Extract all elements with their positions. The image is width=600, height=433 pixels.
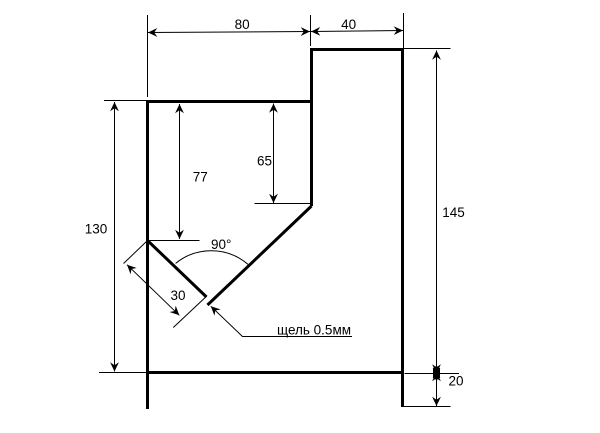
dimension line 77 bbox=[179, 104, 181, 239]
extension line bottom-left for dim 130 bbox=[99, 372, 146, 374]
part outline: top-right horizontal edge bbox=[310, 48, 404, 51]
extension line bottom-right upper for dim 20 bbox=[405, 373, 460, 375]
dimension line 145 bbox=[436, 51, 438, 374]
dimension line 40 bbox=[311, 31, 403, 32]
notch left diagonal bbox=[148, 241, 207, 298]
svg-text:65: 65 bbox=[257, 154, 272, 169]
part outline: step vertical edge bbox=[310, 48, 313, 206]
overlapping arrowheads of dims 145 and 20 bbox=[433, 366, 441, 380]
svg-text:щель 0.5мм: щель 0.5мм bbox=[277, 323, 351, 338]
notch right diagonal bbox=[208, 206, 312, 305]
dimension line 130 bbox=[114, 102, 116, 372]
svg-text:130: 130 bbox=[85, 222, 108, 237]
notch vertex horizontal reference line bbox=[148, 240, 200, 242]
angle arc 90 degrees bbox=[176, 251, 248, 265]
part outline: bottom horizontal edge bbox=[146, 371, 404, 374]
extension line bottom-right lower for dim 20 bbox=[402, 406, 451, 408]
svg-text:145: 145 bbox=[442, 205, 465, 220]
dimension line 20 bbox=[436, 372, 438, 406]
svg-text:80: 80 bbox=[235, 17, 250, 32]
svg-text:77: 77 bbox=[193, 170, 208, 185]
dimension line 65 bbox=[273, 104, 275, 204]
svg-text:40: 40 bbox=[341, 17, 356, 32]
extension line for dim 65 bottom bbox=[255, 203, 312, 205]
dimension line 80 bbox=[148, 32, 310, 33]
extension line middle for dims 80/40 bbox=[310, 15, 312, 46]
extension line right for dim 40 bbox=[403, 13, 405, 48]
dimension line 30 bbox=[127, 265, 179, 316]
svg-text:20: 20 bbox=[449, 374, 464, 389]
part outline: top-left horizontal edge bbox=[146, 100, 313, 103]
extension line top-left for dim 130 bbox=[104, 100, 146, 102]
extension line for dim 30 at vertex bbox=[124, 241, 148, 264]
svg-text:90°: 90° bbox=[211, 237, 231, 252]
slot leader line bbox=[211, 306, 352, 336]
part outline: right vertical edge bbox=[401, 48, 404, 407]
svg-text:30: 30 bbox=[171, 288, 186, 303]
part outline: left vertical edge bbox=[146, 100, 149, 409]
extension line top-right for dim 145 bbox=[404, 48, 451, 50]
extension line left for dim 80 bbox=[147, 15, 149, 97]
extension line for dim 30 at slot end bbox=[173, 297, 206, 328]
